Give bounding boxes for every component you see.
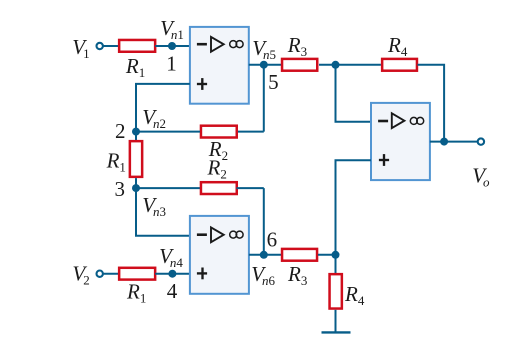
svg-text:2: 2 bbox=[115, 119, 126, 143]
svg-text:Vn6: Vn6 bbox=[251, 262, 275, 288]
wire R2 upper right segment bbox=[237, 131, 264, 133]
wire node 2 to R1 vertical bbox=[135, 132, 137, 140]
wire R1 to op-amp U1 minus input bbox=[155, 45, 190, 47]
svg-text:R4: R4 bbox=[387, 33, 408, 59]
svg-text:R1: R1 bbox=[126, 280, 146, 306]
wire Vn5 feedback vertical bbox=[263, 65, 265, 132]
node 6 output junction dot bbox=[332, 251, 340, 259]
svg-text:R4: R4 bbox=[344, 282, 365, 308]
wire node 2 to R2 upper bbox=[136, 131, 200, 133]
svg-text:V2: V2 bbox=[72, 262, 89, 288]
resistor R2 (lower) bbox=[201, 182, 237, 194]
node Vo junction dot bbox=[440, 138, 448, 146]
svg-text:6: 6 bbox=[267, 228, 278, 252]
svg-text:R3: R3 bbox=[287, 262, 307, 288]
wire node to op-amp U3 minus input bbox=[336, 65, 372, 122]
op-amp U1 bbox=[190, 27, 249, 104]
svg-text:V1: V1 bbox=[72, 35, 89, 61]
ground bbox=[322, 331, 351, 333]
terminal V1 input bbox=[97, 43, 103, 49]
node 4 (Vn4) junction dot bbox=[168, 270, 176, 278]
wire R4 bottom to ground bbox=[335, 310, 337, 333]
wire U3 plus input to node after R3 bottom bbox=[336, 160, 372, 255]
node Vn6 junction dot bbox=[260, 251, 268, 259]
wire node 3 to op-amp U2 minus input bbox=[136, 188, 190, 236]
svg-text:Vo: Vo bbox=[472, 163, 490, 189]
wire U1 output to R3 bbox=[249, 64, 282, 66]
node 1 (Vn1) junction dot bbox=[168, 42, 176, 50]
node after R3 top junction dot bbox=[332, 61, 340, 69]
svg-text:Vn1: Vn1 bbox=[160, 16, 184, 42]
op-amp U3 bbox=[371, 103, 430, 180]
terminal Vo output bbox=[478, 138, 484, 144]
node 2 (Vn2) junction dot bbox=[132, 128, 140, 136]
terminal V2 input bbox=[97, 271, 103, 277]
svg-text:Vn2: Vn2 bbox=[142, 105, 166, 131]
wire U1 plus input to node 2 bbox=[136, 84, 190, 132]
wire V1 to R1 bbox=[103, 45, 118, 47]
svg-text:R3: R3 bbox=[287, 33, 307, 59]
wire node 3 to R2 lower bbox=[136, 187, 200, 189]
resistor R3 (bottom) bbox=[282, 249, 317, 261]
svg-text:4: 4 bbox=[167, 279, 178, 303]
node Vn5 junction dot bbox=[260, 61, 268, 69]
svg-text:3: 3 bbox=[115, 177, 126, 201]
svg-text:1: 1 bbox=[166, 52, 177, 76]
wire R4 top to output node bbox=[418, 65, 445, 142]
resistor R1 (bottom) bbox=[119, 268, 155, 280]
svg-text:Vn5: Vn5 bbox=[252, 36, 276, 62]
wire R3 bottom to node bbox=[318, 254, 336, 256]
resistor R1 (vertical) bbox=[130, 141, 142, 177]
svg-text:R1: R1 bbox=[125, 54, 145, 80]
resistor R3 (top) bbox=[282, 59, 317, 71]
wire U2 output to R3 bottom bbox=[249, 254, 282, 256]
wire R1 vertical to node 3 bbox=[135, 178, 137, 188]
resistor R4 (bottom vertical) bbox=[330, 274, 342, 308]
svg-text:Vn4: Vn4 bbox=[159, 244, 183, 270]
svg-text:Vn3: Vn3 bbox=[142, 193, 166, 219]
resistor R4 (top) bbox=[382, 59, 417, 71]
wire R3 top to R4 top bbox=[319, 64, 381, 66]
wire node to R4 bottom bbox=[335, 255, 337, 273]
wire Vn6 feedback vertical bbox=[263, 188, 265, 255]
svg-text:5: 5 bbox=[268, 70, 279, 94]
resistor R2 (upper) bbox=[201, 126, 237, 138]
op-amp U2 bbox=[190, 216, 249, 294]
wire U3 output to terminal bbox=[430, 141, 478, 143]
wire V2 to R1 bottom bbox=[103, 273, 119, 275]
wire R1 bottom to op-amp U2 plus input bbox=[155, 273, 190, 275]
wire R2 lower right segment bbox=[237, 187, 264, 189]
svg-text:R1: R1 bbox=[106, 149, 126, 175]
node 3 (Vn3) junction dot bbox=[132, 184, 140, 192]
resistor R1 (top) bbox=[119, 40, 155, 52]
